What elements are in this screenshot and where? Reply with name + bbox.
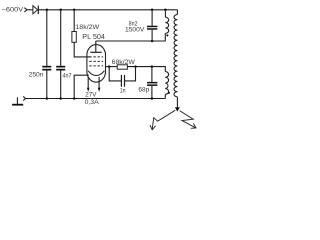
- transformer EHT winding (tall): [174, 10, 177, 97]
- node dot: [134, 65, 137, 68]
- wire input to diode: [27, 9, 33, 11]
- tube anode plate: [90, 41, 101, 52]
- winding polarity dot: [168, 92, 170, 94]
- svg-text:4n7: 4n7: [63, 73, 72, 80]
- wire: 68k to feedback winding: [127, 67, 165, 72]
- capacitor 68p: [147, 82, 157, 86]
- wire: 68p upper: [151, 67, 153, 82]
- svg-text:~600V: ~600V: [2, 7, 24, 14]
- tube grid g1 (dashed): [89, 65, 103, 67]
- wire: branch 1 lower: [46, 71, 48, 99]
- wire: branch 1 upper: [46, 10, 48, 66]
- svg-text:68p: 68p: [138, 86, 149, 93]
- wire: EHT output with arrow: [175, 97, 180, 112]
- svg-text:1500V: 1500V: [125, 27, 145, 34]
- heater lead left with arrow: [87, 77, 90, 92]
- wire: branch 2 lower: [60, 71, 62, 99]
- svg-text:PL 504: PL 504: [82, 34, 105, 41]
- node dot anode/8n2: [151, 40, 154, 43]
- tube PL504 envelope: [87, 45, 106, 83]
- svg-text:27V: 27V: [85, 92, 97, 99]
- wire: branch 2 upper: [60, 10, 62, 66]
- resistor 18k/2W: [72, 32, 76, 43]
- resistor 68k/2W: [117, 65, 127, 69]
- capacitor 250n: [42, 66, 51, 71]
- svg-text:0,3A: 0,3A: [85, 99, 100, 106]
- ground symbol: [12, 97, 23, 104]
- EHT spark arrow left: [150, 110, 175, 130]
- wire: anode line: [96, 33, 166, 41]
- wire: screen/g1 line: [106, 66, 118, 68]
- node dots on top rail: [46, 9, 49, 12]
- wire: top boost rail: [38, 9, 177, 11]
- wire: 68p lower: [151, 86, 153, 99]
- wire: 8n2 upper: [151, 10, 153, 26]
- wire: resistor to screen grid: [74, 42, 90, 57]
- transformer primary winding (upper): [165, 10, 168, 34]
- winding polarity dot: [166, 34, 168, 36]
- tube grid g3 (dashed): [89, 56, 103, 58]
- wire: ground rail: [26, 98, 165, 100]
- svg-text:18k/2W: 18k/2W: [75, 24, 100, 31]
- capacitor 8n2/1500V: [147, 26, 157, 30]
- diode D1: [33, 6, 38, 14]
- svg-text:1n: 1n: [120, 88, 126, 95]
- heater lead right with arrow: [98, 77, 101, 92]
- input chevron: [24, 8, 27, 12]
- tube cathode arc: [88, 71, 104, 76]
- wire: branch 3 rail to resistor: [73, 10, 75, 32]
- wire: 8n2 lower: [151, 30, 153, 41]
- node dot: [108, 65, 111, 68]
- wire: cathode to ground rail: [74, 75, 89, 98]
- transformer feedback winding (lower): [165, 72, 168, 99]
- capacitor 1n loop: [109, 67, 135, 87]
- node dot: [151, 65, 154, 68]
- svg-text:68k/2W: 68k/2W: [112, 59, 136, 66]
- svg-text:250n: 250n: [29, 72, 44, 79]
- capacitor 4n7: [56, 66, 65, 71]
- tube grid g2 (dashed): [89, 60, 103, 62]
- node dots on ground rail: [46, 97, 49, 100]
- EHT spark arrow right: [180, 111, 196, 129]
- ground rail chevron: [23, 96, 25, 100]
